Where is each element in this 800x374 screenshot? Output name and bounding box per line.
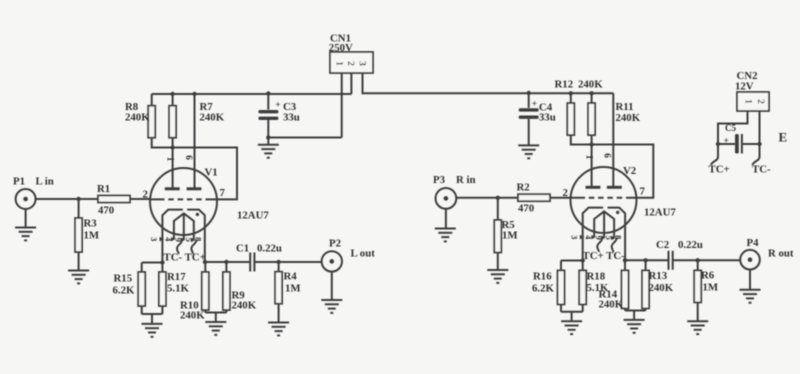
capacitor C4 33u [519, 93, 556, 145]
svg-text:C1: C1 [236, 243, 249, 255]
node R9 top [224, 260, 228, 264]
resistor R17 5.1K [159, 271, 190, 306]
wire CN1 pin1 down [341, 73, 343, 138]
cathode V1 [162, 210, 204, 263]
connector CN1 250V [329, 33, 373, 74]
svg-text:P1: P1 [13, 176, 25, 188]
svg-text:1: 1 [743, 99, 753, 104]
svg-text:TC+: TC+ [709, 164, 730, 176]
svg-text:TC-: TC- [752, 164, 771, 176]
ground under C4 [518, 145, 539, 158]
svg-text:3: 3 [149, 237, 159, 241]
node R13 top [643, 258, 647, 262]
resistor R15 6.2K [113, 272, 146, 306]
cathode V2 [583, 208, 625, 261]
svg-text:7: 7 [220, 187, 226, 199]
resistor R4 1M [275, 271, 300, 304]
svg-text:240K: 240K [125, 112, 150, 124]
svg-text:P4: P4 [747, 237, 760, 249]
wire plate pin1 to grid pin7 V2 [592, 145, 654, 198]
svg-text:R4: R4 [284, 271, 298, 283]
svg-text:2: 2 [143, 189, 148, 201]
connector P4 R out [740, 237, 794, 270]
ground under P4 [740, 290, 761, 303]
node R6 top [696, 258, 700, 262]
wire P3 to ground [445, 209, 447, 229]
svg-text:TC- TC+: TC- TC+ [164, 252, 206, 264]
svg-text:12V: 12V [735, 81, 754, 93]
wire CN1 pin2 to left rail [350, 73, 352, 94]
wire rail to plate pin6 V2 [612, 93, 614, 186]
svg-text:R6: R6 [701, 270, 715, 282]
resistor R1 470 [97, 183, 130, 217]
ground under P3 [435, 229, 456, 242]
svg-text:P2: P2 [329, 238, 341, 250]
wire R12 top to rail [570, 93, 572, 103]
node plate pin1 [170, 145, 174, 149]
svg-text:1M: 1M [285, 283, 301, 295]
terminal hook TC- [753, 144, 760, 165]
wire P1 to R1 [36, 198, 98, 200]
wire R16 R18 bottom bar [561, 304, 583, 321]
node R11 top [589, 91, 593, 95]
node cathode pin3 at R17 [160, 260, 164, 264]
wire R15 R17 top bar [142, 263, 163, 273]
resistor R16 6.2K [532, 270, 565, 304]
svg-text:2: 2 [563, 187, 568, 199]
svg-text:R18: R18 [587, 271, 606, 283]
wire B+ rail left [152, 93, 352, 95]
resistor R6 1M [694, 270, 718, 303]
node TC- CN2 [757, 142, 761, 146]
svg-text:6: 6 [602, 153, 612, 158]
svg-text:3: 3 [356, 61, 366, 66]
wire CN2 pin2 to TC- node [759, 111, 761, 144]
svg-text:R2: R2 [517, 182, 530, 194]
capacitor C5 [718, 123, 760, 154]
resistor R5 1M [494, 219, 517, 253]
ground under R15 R17 [142, 324, 163, 337]
wire junction to R5 [497, 198, 499, 220]
svg-text:6: 6 [183, 155, 193, 160]
resistor R3 1M [75, 218, 99, 253]
plate pin6 bar [187, 187, 202, 190]
ground under R5 [487, 270, 508, 283]
heater V1 [174, 213, 194, 239]
grid dashed V2 [580, 197, 629, 199]
capacitor C2 0.22u [656, 239, 703, 270]
resistor R12 240K [555, 79, 604, 136]
svg-text:E: E [779, 130, 788, 145]
svg-text:0.22u: 0.22u [678, 239, 703, 251]
svg-text:33u: 33u [539, 112, 556, 124]
ground under R10 R9 [205, 322, 226, 335]
node input R junction [496, 196, 500, 200]
svg-text:240K: 240K [616, 112, 641, 124]
ground under R4 [268, 323, 289, 336]
svg-text:1M: 1M [84, 230, 100, 242]
wire rail to plate pin6 [194, 94, 196, 188]
node R7 top [170, 92, 174, 96]
connector P3 R in [433, 174, 476, 209]
svg-text:240K: 240K [200, 112, 225, 124]
wire R7 top to rail [172, 94, 174, 106]
wire R14 R13 stems [625, 260, 646, 310]
svg-text:+: + [532, 100, 537, 110]
node C4 top [527, 91, 531, 95]
resistor R13 240K [642, 270, 674, 308]
heater hook TC+ V2 [597, 238, 602, 253]
wire output line left [205, 261, 250, 263]
wire output line right [254, 261, 321, 263]
svg-text:R1: R1 [97, 183, 110, 195]
svg-text:470: 470 [518, 203, 534, 215]
wire R8 bottom to plate node [152, 138, 173, 148]
wire C3 to ground [267, 138, 269, 145]
svg-text:R in: R in [456, 174, 476, 186]
wire R12 bottom to plate node [571, 135, 592, 144]
wire CN1 pin3 to right rail [363, 73, 614, 93]
svg-text:8: 8 [193, 237, 203, 241]
capacitor C1 0.22u [236, 243, 282, 272]
wire C3 bottom to CN1 pin1 [268, 137, 341, 139]
svg-text:L out: L out [351, 248, 376, 260]
capacitor C3 33u [258, 94, 299, 138]
wire R14 R13 bottom bar [625, 311, 646, 320]
svg-text:P3: P3 [433, 174, 446, 186]
triode V1 12AU7 [143, 155, 270, 263]
svg-text:7: 7 [640, 186, 646, 198]
wire R11 bottom to plate pin1 V2 [591, 135, 593, 186]
wire R5 to ground [497, 253, 499, 271]
ground under R3 [68, 271, 89, 284]
svg-text:240K: 240K [599, 299, 624, 311]
node C3 bottom [266, 135, 270, 139]
ground under R16 R18 [561, 321, 582, 334]
heater hook TC- V2 [612, 238, 617, 253]
svg-text:R12: R12 [555, 79, 574, 91]
wire R10 R9 stems [205, 262, 226, 313]
node TC+ CN2 [716, 142, 720, 146]
svg-text:R3: R3 [84, 218, 98, 230]
svg-text:2: 2 [345, 61, 355, 66]
svg-text:C5: C5 [725, 123, 736, 133]
terminal hook TC+ [711, 144, 718, 165]
resistor R14 240K [599, 270, 629, 310]
plate pin6 bar V2 [607, 186, 622, 189]
svg-text:33u: 33u [283, 112, 300, 124]
resistor R8 240K [125, 101, 155, 138]
wire R16 R18 top bar [561, 261, 583, 271]
wire R4 stems [278, 262, 280, 323]
svg-text:1: 1 [334, 61, 344, 66]
svg-text:12AU7: 12AU7 [237, 210, 269, 222]
svg-text:470: 470 [98, 205, 114, 217]
wire P1 to ground [25, 209, 27, 228]
resistor R11 240K [588, 101, 641, 135]
ground under R14 R13 [624, 320, 645, 333]
resistor R18 5.1K [579, 270, 609, 304]
plate pin1 bar [165, 187, 180, 190]
node cathode pin3 at R18 [581, 258, 585, 262]
svg-text:240K: 240K [578, 79, 603, 91]
svg-text:R13: R13 [649, 270, 668, 282]
node input L junction [76, 197, 80, 201]
node R12 top [569, 91, 573, 95]
svg-text:V2: V2 [623, 165, 636, 177]
svg-text:250V: 250V [329, 42, 353, 54]
wire R2 to grid pin2 V2 [550, 197, 571, 199]
wire CN2 pin1 to TC+ node [718, 111, 748, 144]
node C3 top [266, 91, 270, 95]
heater hook TC+ [191, 240, 196, 255]
ground under C3 [258, 145, 279, 158]
heater V2 [594, 211, 614, 237]
connector P2 L out [322, 238, 376, 272]
svg-text:12AU7: 12AU7 [644, 207, 676, 219]
wire R10 R9 bottom bar [205, 313, 226, 323]
wire P4 to ground [749, 270, 751, 290]
svg-text:R15: R15 [114, 273, 133, 285]
node plate pin6 rail [192, 92, 196, 96]
svg-text:+: + [724, 137, 729, 147]
wire R15 R17 bottom bar [142, 306, 163, 324]
svg-text:R out: R out [768, 248, 794, 260]
grid dashed [159, 198, 208, 200]
svg-text:3: 3 [569, 235, 579, 239]
svg-text:5.1K: 5.1K [167, 283, 189, 295]
svg-text:TC+ TC-: TC+ TC- [583, 250, 626, 262]
svg-text:240K: 240K [180, 310, 205, 322]
triode V2 12AU7 [563, 153, 677, 262]
wire P2 to ground [331, 272, 333, 300]
node cathode pin8 at R14 [623, 258, 627, 262]
resistor R2 470 [517, 182, 551, 215]
svg-text:1M: 1M [703, 282, 719, 294]
wire R7 bottom to plate pin1 [172, 138, 174, 188]
wire R6 stems [697, 260, 699, 321]
wire plate pin1 to grid pin7 [173, 148, 237, 200]
plate pin1 bar V2 [586, 186, 601, 189]
node plate pin1 V2 [589, 142, 593, 146]
wire R3 to ground [78, 252, 80, 271]
svg-text:+: + [275, 101, 280, 111]
node cathode pin8 at R10 [203, 260, 207, 264]
svg-text:R16: R16 [533, 271, 552, 283]
wire R1 to grid pin2 V1 [130, 198, 150, 200]
svg-text:1: 1 [165, 157, 175, 162]
svg-text:R17: R17 [167, 271, 186, 283]
ground under R6 [687, 321, 708, 334]
svg-text:2: 2 [755, 99, 765, 104]
svg-text:1M: 1M [502, 230, 518, 242]
svg-text:L in: L in [36, 176, 54, 188]
resistor R9 240K [223, 272, 257, 312]
svg-text:240K: 240K [649, 282, 674, 294]
svg-text:0.22u: 0.22u [257, 243, 282, 255]
node R4 top [276, 260, 280, 264]
svg-text:6.2K: 6.2K [532, 283, 554, 295]
svg-text:V1: V1 [205, 167, 218, 179]
ground under P1 [15, 228, 36, 241]
svg-text:6.2K: 6.2K [113, 285, 135, 297]
svg-text:1: 1 [584, 155, 594, 160]
ground under P2 [321, 300, 342, 313]
svg-text:240K: 240K [232, 300, 257, 312]
svg-text:8: 8 [614, 235, 624, 239]
connector P1 L in [13, 176, 54, 210]
wire output line R left [625, 259, 668, 261]
wire junction to R3 [78, 199, 80, 218]
wire P3 to R2 [456, 197, 518, 199]
svg-text:C2: C2 [656, 239, 669, 251]
wire R11 top to rail [591, 93, 593, 103]
wire output line R right [673, 259, 741, 261]
connector CN2 12V [735, 70, 769, 111]
resistor R7 240K [169, 101, 225, 138]
heater hook TC- [177, 240, 182, 255]
wire R8 top to rail [151, 94, 153, 106]
resistor R10 240K [180, 272, 209, 322]
